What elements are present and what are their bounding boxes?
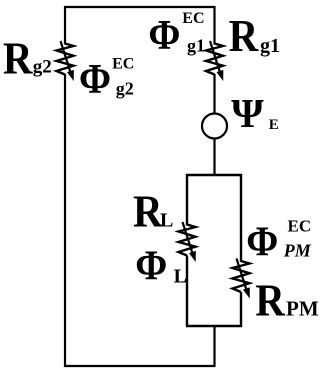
svg-text:E: E xyxy=(269,117,279,133)
label flux Phi_g1_EC xyxy=(148,10,205,58)
svg-text:g2: g2 xyxy=(116,79,134,99)
inner rect top edge xyxy=(186,174,242,176)
wire between R_g1 and source xyxy=(213,74,215,114)
svg-text:g1: g1 xyxy=(260,35,280,57)
inner rect right edge lower (below R_PM) xyxy=(240,292,242,327)
wire right vertical upper (above R_g1) xyxy=(213,6,215,45)
svg-text:EC: EC xyxy=(288,216,312,235)
svg-text:R: R xyxy=(133,186,163,237)
label R_g1 xyxy=(229,11,280,62)
label R_g2 xyxy=(3,33,52,84)
svg-text:R: R xyxy=(255,275,285,326)
svg-text:L: L xyxy=(160,210,173,232)
inner rect left edge upper (above R_L) xyxy=(186,174,188,226)
label source Psi_E xyxy=(231,90,279,136)
svg-text:Φ: Φ xyxy=(135,242,167,289)
inner rect bottom edge xyxy=(186,325,242,327)
svg-text:L: L xyxy=(174,265,187,287)
label flux Phi_g2_EC xyxy=(79,56,134,103)
wire between source and inner rect xyxy=(213,139,215,177)
svg-text:Φ: Φ xyxy=(246,218,278,265)
resistor R_g2 xyxy=(57,41,74,81)
svg-text:PM: PM xyxy=(286,297,319,321)
wire left vertical upper (above R_g2) xyxy=(64,6,66,45)
wire bottom horizontal xyxy=(64,365,216,367)
svg-text:Φ: Φ xyxy=(79,56,111,103)
wire top horizontal xyxy=(64,6,216,8)
resistor R_PM xyxy=(233,259,250,299)
inner rect left edge lower (below R_L) xyxy=(186,256,188,328)
label flux Phi_L xyxy=(135,242,187,289)
inner rect right edge upper (above R_PM) xyxy=(240,174,242,262)
resistor R_g1 xyxy=(206,41,223,81)
label R_L xyxy=(133,186,173,237)
wire left vertical lower (below R_g2) xyxy=(64,74,66,367)
label R_PM xyxy=(255,275,319,326)
svg-text:g1: g1 xyxy=(187,35,205,55)
svg-text:EC: EC xyxy=(182,10,204,27)
svg-text:R: R xyxy=(3,33,33,84)
svg-text:R: R xyxy=(229,11,259,62)
svg-text:Φ: Φ xyxy=(148,11,180,58)
label flux Phi_PM_EC xyxy=(246,216,311,265)
svg-text:Ψ: Ψ xyxy=(231,90,264,136)
svg-text:EC: EC xyxy=(112,56,134,73)
source Psi_E circle xyxy=(202,114,227,139)
resistor R_L xyxy=(179,222,196,262)
svg-text:g2: g2 xyxy=(33,56,52,77)
wire inner rect bottom to outer bottom xyxy=(213,326,215,366)
svg-text:PM: PM xyxy=(283,241,312,261)
